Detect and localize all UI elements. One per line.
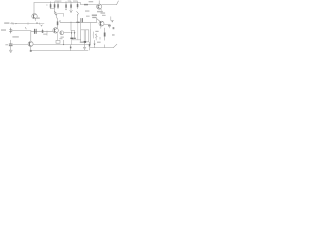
node A junction xyxy=(51,8,55,10)
wire x96 lower xyxy=(95,34,97,40)
transistor Q8 marks xyxy=(95,34,97,36)
resistor R13 vertical right xyxy=(104,28,106,33)
node tick right xyxy=(99,37,101,39)
label text above bus xyxy=(86,16,90,17)
node tick x39.5 xyxy=(39,23,41,24)
wire Q2 to right xyxy=(57,13,63,15)
node dot out xyxy=(112,21,113,22)
wire input row continuing xyxy=(33,23,44,25)
label V xyxy=(41,25,42,26)
wire blob drop xyxy=(77,23,79,40)
transistor Q4b xyxy=(60,31,64,35)
label v mid xyxy=(59,21,60,22)
wire bottom right rail xyxy=(90,47,113,49)
wire x96 drop xyxy=(95,18,97,22)
label q xyxy=(113,27,115,29)
wire diode bottom link xyxy=(72,39,81,41)
wire mid bus xyxy=(60,21,97,23)
label T1 text xyxy=(61,37,64,38)
wire diagonal to Q6 xyxy=(97,19,101,22)
label out L xyxy=(111,17,114,21)
transistor Q6 xyxy=(99,21,104,26)
transistor Q7 xyxy=(28,41,33,46)
node dot x89.5 xyxy=(89,44,90,46)
resistor R9 vertical xyxy=(57,18,59,21)
label spk text xyxy=(95,31,98,32)
speaker bracket xyxy=(92,32,95,38)
node dot left xyxy=(46,5,47,6)
transistor Q5 xyxy=(97,4,102,9)
node arrow input xyxy=(16,23,17,24)
label small text xyxy=(43,34,47,35)
transformer T1 xyxy=(81,30,89,42)
label xin xyxy=(12,36,18,37)
diode D2 xyxy=(74,31,76,33)
node Q7 return corner xyxy=(30,50,32,52)
wire Q5 collector up xyxy=(98,1,100,4)
wire bottom bus left xyxy=(13,44,28,46)
wire J2 drop xyxy=(46,31,48,35)
node blob x70 xyxy=(70,47,72,49)
wire transformer primary top xyxy=(80,22,82,30)
wire drop x84.5 xyxy=(84,43,86,47)
wire diode to bus xyxy=(71,40,73,45)
label cluster text xyxy=(92,15,97,16)
ground G3 xyxy=(83,47,86,49)
resistor R12 xyxy=(42,29,44,30)
component box R14 xyxy=(56,40,60,43)
transistor Q1 xyxy=(32,14,37,19)
wire Q5 output right xyxy=(102,4,117,6)
label ch2 input text xyxy=(1,29,6,30)
resistor R4 xyxy=(54,2,56,4)
label Q5 text xyxy=(97,11,103,12)
label input text xyxy=(4,22,9,23)
capacitor C6 series xyxy=(34,29,36,33)
resistor R10 horizontal xyxy=(84,4,88,5)
wire Q6 emitter right xyxy=(104,24,110,26)
diode D3 xyxy=(94,40,96,43)
node blob xyxy=(76,22,79,23)
wire right-top feed xyxy=(81,3,97,5)
wire Q7 emitter down xyxy=(30,46,32,50)
wire Q1 collector drop xyxy=(33,3,35,14)
wire Q6 down xyxy=(100,26,102,28)
node tick xyxy=(27,23,29,25)
wire J1 drop xyxy=(70,22,72,30)
wire driver row xyxy=(64,31,70,33)
label top values c xyxy=(73,1,78,2)
capacitor C2 electrolytic xyxy=(10,40,12,44)
wire input to Q1 base xyxy=(15,23,33,25)
node dot wire xyxy=(38,30,41,33)
label out small xyxy=(108,25,111,27)
resistor R1 input series xyxy=(11,23,15,25)
node dark bar xyxy=(70,38,73,40)
node wiper arrow xyxy=(70,10,72,12)
wire ch2 row xyxy=(31,30,53,32)
wire drop x70 link xyxy=(70,45,72,51)
wire bottom bus main xyxy=(33,44,90,46)
wire diagonal mark xyxy=(113,44,117,47)
diode D1 xyxy=(71,31,73,33)
transistor Q2 xyxy=(54,12,56,15)
wire Q3 emitter chain xyxy=(57,33,59,40)
ground G1 xyxy=(9,50,12,52)
wire drop x89.5 xyxy=(89,42,91,50)
resistor R7 xyxy=(70,2,72,5)
capacitor C4 cluster xyxy=(81,18,83,22)
label Q6 text b xyxy=(102,15,106,16)
wire corner up right xyxy=(117,1,119,5)
label 4 mark xyxy=(36,22,38,24)
resistor R6 xyxy=(65,2,67,5)
wire short drop xyxy=(62,14,64,17)
node arrow ch2 xyxy=(24,27,27,29)
wire diode top link xyxy=(72,30,75,32)
wire bottom return line xyxy=(31,50,88,52)
label top values a xyxy=(55,1,62,2)
transistor Q2b xyxy=(77,11,79,13)
label top right text xyxy=(89,1,94,2)
label text bottom right xyxy=(97,42,101,43)
label c2 text xyxy=(5,44,8,45)
wire ch2 drop to Q7 xyxy=(30,31,32,41)
node J1 xyxy=(70,22,71,23)
label Q1 xyxy=(37,17,40,19)
wire transformer sec top xyxy=(90,22,92,30)
capacitor C5 input ch2 xyxy=(10,28,12,33)
node T1 blob xyxy=(84,41,86,43)
label bottom text xyxy=(80,42,84,43)
wire Q1 emitter xyxy=(35,18,37,20)
label text mid right xyxy=(85,10,89,11)
node J3 xyxy=(63,44,64,45)
resistor R3 xyxy=(50,2,52,4)
transistor Q3 xyxy=(53,28,58,33)
resistor R5 xyxy=(57,2,59,4)
wire top supply bus xyxy=(34,2,81,4)
resistor R8 xyxy=(77,2,79,4)
label Q6 text a xyxy=(101,12,106,13)
wire Q2b down xyxy=(77,15,79,22)
label small text b xyxy=(59,38,62,39)
node J2 xyxy=(47,31,48,32)
wire Q5 emitter mark xyxy=(100,9,101,11)
wire ch2 input xyxy=(11,30,31,32)
wire drop x63 xyxy=(63,40,65,44)
wire T1 right xyxy=(90,30,92,45)
node tick x104 xyxy=(104,45,106,48)
label top values b xyxy=(68,1,71,2)
